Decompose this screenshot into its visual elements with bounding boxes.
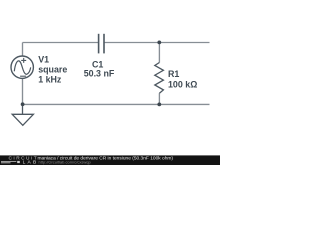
svg-text:http://circuitlab.com/c/cxswqp: http://circuitlab.com/c/cxswqp	[39, 160, 92, 165]
svg-text:100 kΩ: 100 kΩ	[168, 80, 197, 90]
svg-text:square: square	[38, 64, 67, 74]
svg-text:50.3 nF: 50.3 nF	[84, 68, 115, 78]
svg-text:1 kHz: 1 kHz	[38, 74, 62, 84]
wire top-right horizontal (capacitor to right end)	[104, 42, 209, 44]
node junction dot bottom-left	[21, 102, 25, 106]
wire top-left horizontal (source to capacitor)	[23, 42, 99, 44]
voltage source V1	[11, 56, 33, 78]
wire left vertical upper (top wire to V1)	[22, 43, 24, 57]
resistor R1	[155, 63, 164, 94]
footer annotation text	[38, 155, 174, 164]
capacitor C1	[99, 34, 104, 54]
wire left vertical lower (V1 to bottom wire)	[22, 78, 24, 105]
ground	[12, 104, 33, 125]
wire bottom horizontal	[23, 103, 210, 105]
node junction dot bottom-right	[157, 103, 161, 107]
svg-text:LAB: LAB	[23, 160, 39, 166]
wire right vertical lower (R1 to bottom wire)	[158, 93, 160, 104]
wire right vertical upper (top wire to R1)	[158, 42, 160, 62]
CircuitLab logo	[1, 155, 39, 165]
svg-text:R1: R1	[168, 69, 179, 79]
node junction dot top-right	[157, 41, 161, 45]
svg-text:V1: V1	[38, 54, 49, 64]
footer bar	[0, 155, 220, 165]
